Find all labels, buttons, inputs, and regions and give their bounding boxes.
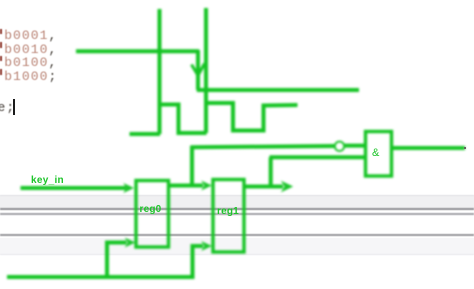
pen cursor dot at output end: [464, 147, 466, 150]
light band bottom edge: [0, 254, 474, 255]
wire: horizontal feed y51: [76, 49, 199, 53]
wire: branch to reg0 lower input: [107, 243, 127, 279]
wire: horizontal to inverter bubble: [191, 146, 335, 147]
inverter bubble: [335, 142, 344, 151]
label & of and-gate: [372, 147, 379, 159]
wire: long clock vertical 1: [158, 9, 162, 134]
light band y238-254: [0, 238, 474, 255]
wire: gate input B vertical: [269, 157, 273, 186]
grey divider line lower: [0, 213, 474, 215]
quote tick line1: [0, 29, 2, 35]
grey rule y235: [0, 234, 474, 236]
register reg0: [136, 181, 169, 248]
label reg1: [217, 206, 239, 217]
wire: feedback bottom long: [7, 246, 203, 277]
text caret: [13, 99, 15, 115]
wire: long clock vertical 2: [204, 8, 208, 133]
wire: clock waveform right segment: [205, 103, 298, 131]
grey band top edge: [0, 195, 474, 196]
wire: bubble to gate: [344, 144, 365, 148]
node label key_in: [31, 175, 64, 186]
wire: key_in input with arrow: [21, 186, 127, 190]
wire: long horizontal y90: [197, 88, 359, 92]
wire: vertical drop with arrow x198: [196, 50, 200, 90]
grey band (panel top strip): [0, 195, 474, 208]
arrowhead down on x198 wire: [192, 65, 199, 76]
wire: junction vertical up to gate input A: [190, 146, 194, 187]
grey divider line upper: [0, 208, 474, 210]
label reg0: [140, 204, 162, 215]
wire: gate input B horizontal: [270, 155, 365, 159]
quote tick line3: [0, 56, 2, 62]
quote tick line4: [0, 69, 2, 75]
wire: reg0 to reg1: [170, 184, 203, 188]
quote tick line2: [0, 42, 2, 48]
wire: reg1 output with arrow: [246, 185, 284, 189]
wire: clock waveform left segment: [130, 132, 161, 136]
wire: gate output: [393, 146, 465, 150]
code text lines (verilog literals): [4, 29, 57, 83]
register reg1: [213, 180, 244, 253]
and-gate U1 body: [366, 132, 392, 177]
code line e; with caret: [0, 101, 15, 115]
